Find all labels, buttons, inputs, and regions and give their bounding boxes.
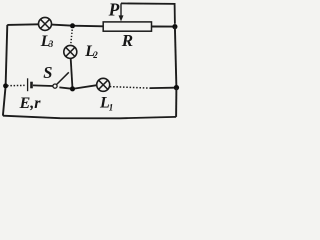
wire: dotted branch down to lamp L2 [71,30,73,45]
wire: right vertical lower [175,88,177,117]
svg-text:S: S [43,63,52,82]
svg-text:P: P [108,0,120,19]
wire: switch to L2 junction [59,87,72,88]
wire: slider top wire to right side [121,3,175,23]
svg-text:3: 3 [48,39,54,49]
wire: left vertical [3,25,7,116]
wire: battery to switch [33,84,53,87]
wire: dotted lead from L1 to right junction [110,87,150,89]
node: junction of battery branch with left wire [3,83,8,88]
lamp L1 [97,78,110,91]
wire: junction to lamp L1 [75,85,97,88]
label L1 [99,95,113,113]
wire: top-left horizontal from corner to lamp L3 [7,23,38,26]
label L3 [40,33,54,50]
svg-text:1: 1 [109,102,114,112]
wire: from lamp L2 down to switch-branch junction [71,58,73,88]
svg-text:E,r: E,r [19,95,42,112]
wire: dotted lead from left wire to battery [7,84,24,86]
node: junction of L2 branch with top wire [70,23,75,28]
wire: solid lead continuing to right junction [150,87,174,89]
node: junction top-right (slider loop + R + right wire) [172,24,177,29]
wire: right vertical upper [175,27,177,88]
battery E,r negative plate [30,82,33,89]
wire: top horizontal from L3 to rheostat R [52,25,104,27]
svg-text:2: 2 [92,50,98,60]
lamp L3 [39,17,52,30]
node: junction of L2 branch with middle wire [70,86,75,91]
battery E,r positive plate [27,78,29,91]
label L2 [84,43,98,60]
rheostat R body [103,22,151,31]
wire: bottom horizontal [3,116,176,119]
slider arrow P of rheostat [119,3,124,21]
wire: rheostat right lead [152,26,174,28]
switch S pivot [53,84,57,88]
switch S lever (open) [57,72,69,84]
svg-text:R: R [121,31,133,50]
lamp L2 [64,45,77,58]
node: junction of L1 branch with right wire [174,85,179,90]
